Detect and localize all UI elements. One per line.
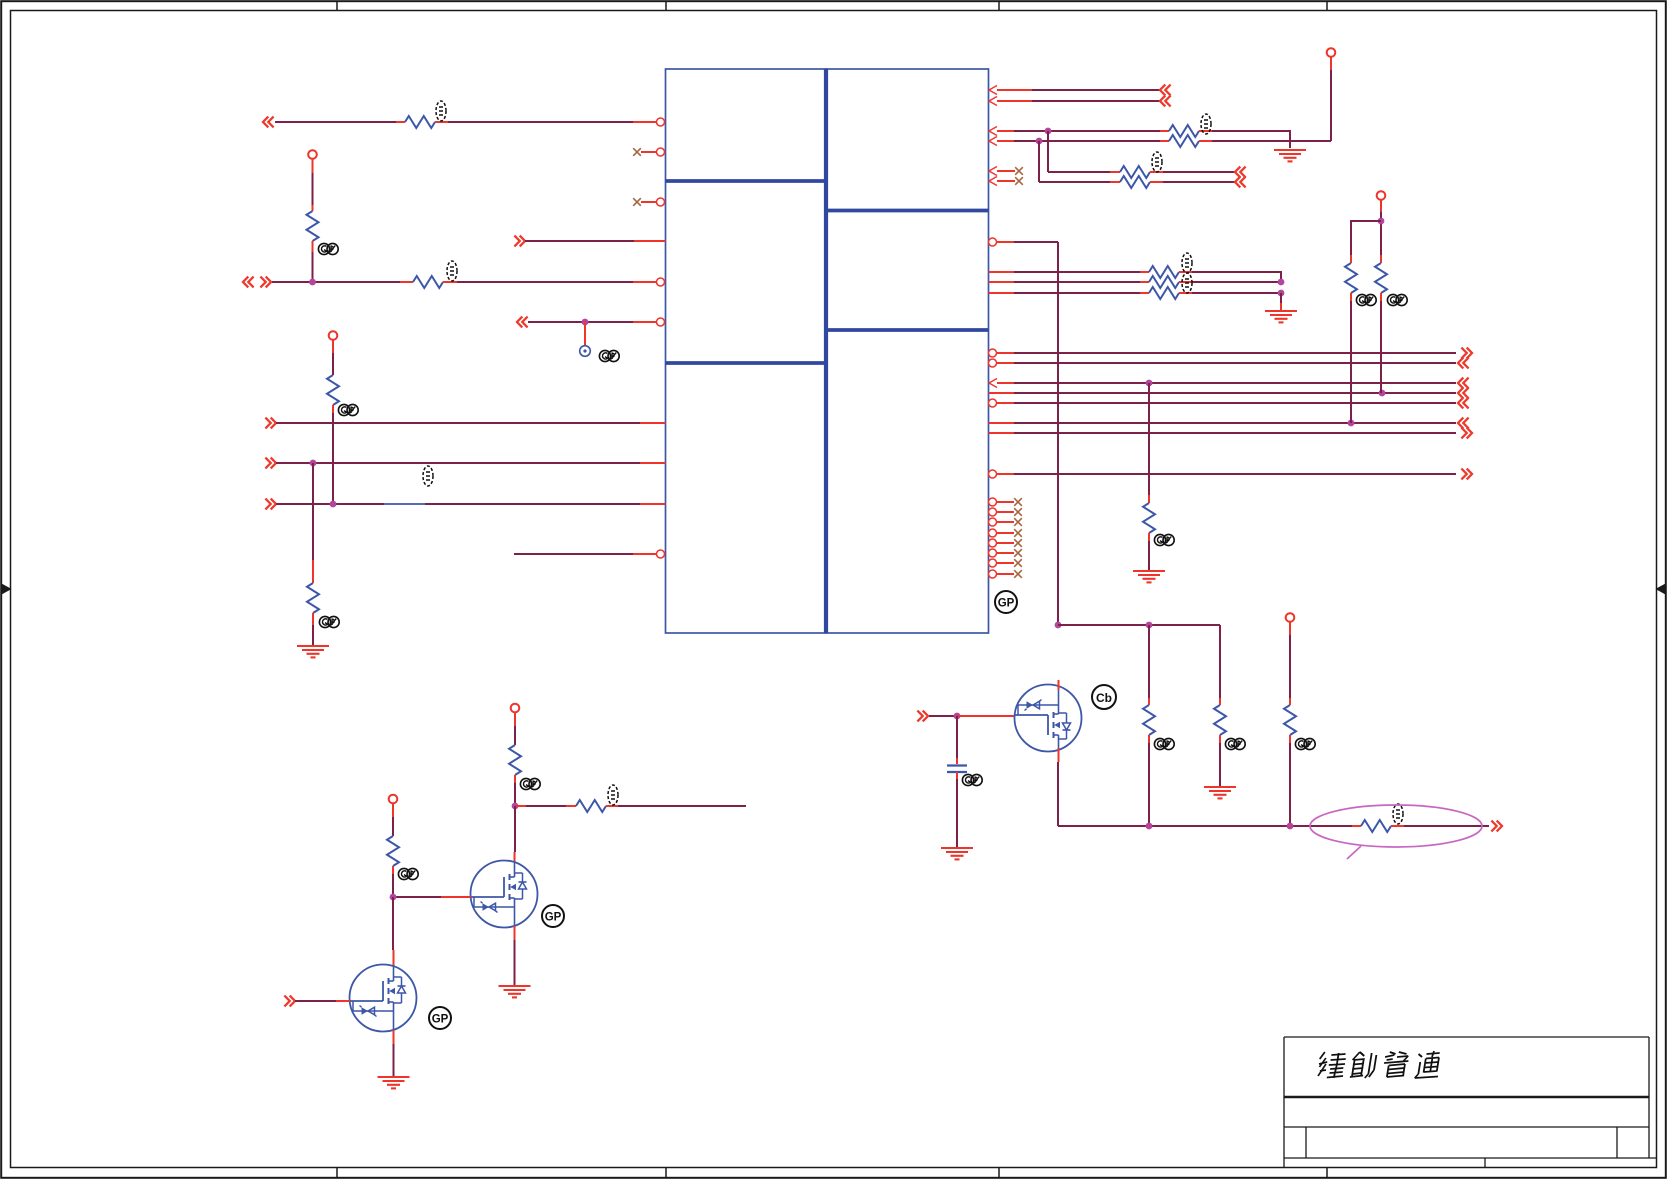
red stub R18 top: [1219, 698, 1221, 705]
nc stub red y181: [997, 180, 1015, 182]
centering arrow right edge: [1657, 585, 1667, 594]
port chevron OUT B8: [1461, 469, 1472, 480]
pin circle y403: [989, 399, 997, 407]
label G/P TP1: [599, 350, 619, 361]
wire R23 to junction: [392, 874, 394, 897]
wire net N7 segment b: [425, 503, 640, 505]
wire net M1 horizontal: [1014, 241, 1058, 243]
wire P2 to R4: [332, 353, 334, 375]
IC U1 thick center divider: [824, 69, 828, 633]
port chevron OUT T1: [1160, 85, 1171, 96]
wire G2 to R22: [526, 805, 566, 807]
port chevron OUT B3: [1458, 378, 1469, 389]
wire net T4: [1014, 140, 1160, 142]
nc pin y502: [989, 498, 1022, 506]
red stub R15 bottom: [1350, 293, 1352, 301]
red stub R16 bottom: [1380, 293, 1382, 301]
wire D1 down x1220: [1219, 625, 1221, 698]
pin arrow y131: [989, 127, 997, 136]
power terminal P6: [511, 704, 520, 713]
highlight leader line: [1347, 846, 1361, 859]
wire net B1: [1014, 352, 1456, 354]
ground GND8: [378, 1077, 410, 1088]
wire V3 from N6 down: [312, 463, 314, 560]
port chevron OUT B5: [1458, 398, 1469, 409]
label GP Q4: [542, 905, 564, 927]
pin stub red y282: [989, 281, 1015, 283]
nc pin y202 stub: [641, 201, 657, 203]
highlight ellipse: [1310, 805, 1482, 847]
pin stub red y393: [989, 392, 1015, 394]
wire net G1: [929, 715, 957, 717]
pin circle y282: [657, 278, 665, 286]
pin arrow y90: [989, 86, 997, 95]
pin stub red y322: [633, 321, 657, 323]
wire P4 down: [1380, 212, 1382, 255]
IC U1 left column divider B: [666, 361, 827, 365]
resistor R7: [1169, 125, 1199, 137]
svg-text:GP: GP: [545, 912, 562, 924]
power stub red P4: [1380, 200, 1382, 212]
resistor R11: [1149, 266, 1179, 278]
wire red stub R1 right: [435, 121, 448, 123]
pin circle y554: [657, 550, 665, 558]
wire M4 down to ground: [1280, 293, 1282, 303]
label G/P R16: [1387, 294, 1407, 305]
no-connect X y171: [1015, 167, 1023, 175]
wire net T2: [1032, 100, 1160, 102]
port chevron OUT B6: [1458, 418, 1469, 429]
label Cb circled: [1092, 685, 1116, 709]
wire P6 down: [514, 726, 516, 745]
red stub R19 top: [1289, 698, 1291, 705]
pin stub red y141: [997, 140, 1014, 142]
wire net B4: [1014, 392, 1456, 394]
wire T6 to port: [1163, 181, 1235, 183]
wire R19 to bus: [1289, 743, 1291, 826]
power stub red P7: [392, 803, 394, 817]
zone tick top 4: [1326, 1, 1328, 11]
port chevron pair IN3 right: [260, 277, 271, 288]
pin circle y474: [989, 470, 997, 478]
wire net N7 blue tie segment: [384, 503, 425, 505]
wire T5 to port: [1163, 171, 1235, 173]
wire R3 to junction: [312, 252, 314, 282]
port chevron IN1: [263, 117, 274, 128]
port chevron gate G3: [284, 996, 295, 1007]
junction dot P4: [1378, 218, 1385, 225]
label GP circled: [995, 591, 1017, 613]
label G/P R6: [319, 616, 339, 627]
wire R15 to B6: [1350, 301, 1352, 423]
junction dot D1: [1146, 622, 1153, 629]
wire C1 to ground: [956, 779, 958, 848]
wire B3 pulldown vertical: [1148, 383, 1150, 495]
pin arrow y141: [989, 137, 997, 146]
label R22: [608, 785, 618, 805]
port chevron gate G1: [917, 711, 928, 722]
wire P7 down: [392, 817, 394, 836]
wire T4 to pullup: [1212, 140, 1331, 142]
wire net N2: [525, 240, 634, 242]
resistor R15 vertical: [1345, 263, 1357, 293]
wire net N1 to pin: [448, 121, 633, 123]
wire Q4 source to ground: [514, 940, 516, 986]
red stub R12 right: [1179, 281, 1192, 283]
red stub R10 right: [1150, 181, 1163, 183]
label G/P R14: [1154, 534, 1174, 545]
no-connect X y181: [1015, 177, 1023, 185]
title block frame: [1284, 1037, 1657, 1168]
IC U1 right column divider B: [826, 328, 989, 332]
wire net N6: [276, 462, 640, 464]
nc pin y533: [989, 529, 1022, 537]
red stub R7 left: [1160, 130, 1169, 132]
port chevron OUT T5: [1235, 167, 1246, 178]
red stub R3 top: [312, 205, 314, 211]
ground GND5: [1204, 787, 1236, 798]
label R12: [1182, 273, 1192, 293]
wire R14 to ground: [1148, 541, 1150, 571]
pin stub red y90: [997, 89, 1032, 91]
junction dot N4: [582, 319, 589, 326]
resistor R20: [1361, 820, 1391, 832]
port chevron IN4: [517, 317, 528, 328]
label G/P R15: [1356, 294, 1376, 305]
label R1: [436, 101, 446, 121]
zone tick bottom 1: [336, 1168, 338, 1178]
resistor R21 vertical: [509, 745, 521, 775]
pin arrow y383: [989, 379, 997, 388]
wire net N8 bare: [514, 553, 633, 555]
wire net M2: [1014, 271, 1140, 273]
zone tick bottom 3: [998, 1168, 1000, 1178]
pin stub red y474: [997, 473, 1015, 475]
resistor R1: [405, 116, 435, 128]
pin stub red y353: [997, 352, 1015, 354]
red stub R8 right: [1199, 140, 1212, 142]
pin stub red y504: [640, 503, 666, 505]
ground GND3: [1265, 311, 1297, 322]
port chevron OUT B1: [1461, 348, 1472, 359]
resistor R16 vertical: [1375, 263, 1387, 293]
red stub R9 left: [1110, 171, 1120, 173]
wire Q4 gate: [393, 896, 441, 898]
label R7: [1201, 114, 1211, 134]
transistor Q4: [471, 861, 538, 928]
label G/P R3: [318, 243, 338, 254]
pin stub red y242: [997, 241, 1015, 243]
pin circle y353: [989, 349, 997, 357]
company logo glyph 4 (tong): [1415, 1051, 1442, 1078]
red stub R11 right: [1179, 271, 1192, 273]
wire net B8: [1014, 473, 1456, 475]
red stub R8 left: [1160, 140, 1169, 142]
power terminal P7: [389, 795, 398, 804]
label R2: [447, 261, 457, 281]
zone tick top 2: [665, 1, 667, 11]
gate stub red Q6: [957, 715, 1015, 717]
red stub R17 top: [1148, 698, 1150, 705]
nc pin y522: [989, 518, 1022, 526]
junction dot M1-top: [1055, 622, 1062, 629]
power stub red P2: [332, 340, 334, 353]
port chevron OUT T6: [1235, 177, 1246, 188]
power stub red P5: [1289, 622, 1291, 635]
transistor Q6: [1015, 685, 1082, 752]
pin stub red y101: [997, 100, 1032, 102]
IC block U1 right column outline: [826, 69, 989, 633]
capacitor wire C1 top: [956, 716, 958, 758]
pin stub red y272: [989, 271, 1015, 273]
label R20: [1393, 804, 1403, 824]
junction dot bus-a: [1146, 823, 1153, 830]
red stub R6 top: [312, 560, 314, 583]
company logo glyph 1 (wei): [1317, 1052, 1347, 1078]
source red stub Q6 bottom: [1058, 748, 1060, 762]
pin stub red y433: [989, 432, 1015, 434]
wire net N7 segment a: [276, 503, 384, 505]
junction dot M4: [1278, 290, 1285, 297]
wire P4 branch left: [1351, 221, 1381, 255]
red stub R18 bottom: [1219, 735, 1221, 743]
red stub C1 top: [956, 758, 958, 764]
red stub R21 bottom: [514, 775, 516, 783]
power terminal P5: [1286, 613, 1295, 622]
power stub red P6: [514, 712, 516, 726]
drain red stub Q5: [393, 950, 395, 966]
zone tick bottom 2: [665, 1168, 667, 1178]
wire T3 branch vertical: [1047, 131, 1049, 172]
red stub R22 right: [606, 805, 618, 807]
title block heavy divider: [1284, 1096, 1649, 1099]
junction dot G3: [390, 894, 397, 901]
wire net B7: [1014, 432, 1456, 434]
ground GND1: [297, 646, 329, 657]
red stub R11 left: [1140, 271, 1149, 273]
pin stub red y363: [997, 362, 1015, 364]
power terminal P3: [1327, 48, 1336, 57]
nc pin y574: [989, 570, 1022, 578]
pin stub red y463: [640, 462, 666, 464]
port chevron OUT T2: [1160, 96, 1171, 107]
red stub R10 left: [1110, 181, 1120, 183]
label G/P R4: [338, 404, 358, 415]
wire G3 down to Q5: [392, 897, 394, 950]
wire net D1 top rail: [1058, 624, 1220, 626]
pin arrow y171: [989, 167, 997, 176]
nc pin y152 circle: [657, 148, 665, 156]
red stub R15 top: [1350, 255, 1352, 263]
nc pin y553: [989, 549, 1022, 557]
no-connect X y202: [633, 198, 641, 206]
nc pin y543: [989, 539, 1022, 547]
wire D1 down x1149: [1148, 625, 1150, 698]
wire T3 to corner: [1212, 131, 1290, 148]
ground GND6: [941, 848, 973, 859]
pin stub red y423: [640, 422, 666, 424]
label G/P C1: [962, 774, 982, 785]
wire net N3 segment: [272, 281, 400, 283]
wire net T3: [1014, 130, 1160, 132]
red stub R6 bottom: [312, 613, 314, 625]
red stub R12 left: [1140, 281, 1149, 283]
port chevron IN6: [265, 458, 276, 469]
wire R22 out: [618, 805, 746, 807]
pin stub red y554: [633, 553, 657, 555]
resistor R6 vertical: [307, 583, 319, 613]
junction dot N3: [309, 279, 316, 286]
red stub R16 top: [1380, 255, 1382, 263]
pin stub red y131: [997, 130, 1014, 132]
label R5: [423, 466, 433, 486]
label G/P R18: [1225, 738, 1245, 749]
pin stub red y282: [633, 281, 657, 283]
wire Q5 source to ground: [393, 1044, 395, 1077]
wire G2 down to Q4: [514, 806, 516, 852]
zone tick top 1: [336, 1, 338, 11]
wire R21 to junction: [514, 783, 516, 806]
label R9: [1152, 152, 1162, 172]
pin circle y322: [657, 318, 665, 326]
gate red stub Q4: [441, 896, 471, 898]
wire net M4: [1014, 292, 1140, 294]
ground GND4: [1133, 571, 1165, 582]
centering arrow left edge: [2, 585, 11, 594]
drain red stub Q6 top: [1058, 680, 1060, 690]
capacitor C1: [947, 766, 967, 773]
resistor R3 vertical: [307, 211, 319, 241]
transistor Q5: [350, 965, 417, 1032]
label G/P R19: [1295, 738, 1315, 749]
pin arrow y101: [989, 97, 997, 106]
wire T4 branch vertical: [1038, 141, 1040, 182]
resistor R9: [1120, 166, 1150, 178]
wire bottom bus: [1058, 825, 1352, 827]
red stub R22 left: [515, 805, 526, 807]
junction dot N7: [330, 501, 337, 508]
power stub red P3: [1330, 57, 1332, 70]
resistor R17 vertical: [1143, 705, 1155, 735]
wire R17 to bus: [1148, 743, 1150, 826]
source red stub Q5: [393, 1030, 395, 1044]
svg-text:GP: GP: [998, 598, 1015, 610]
nc stub red y171: [997, 170, 1015, 172]
port chevron IN7: [265, 499, 276, 510]
wire net M3: [1014, 281, 1140, 283]
nc pin y202 circle: [657, 198, 665, 206]
wire P5 down: [1289, 635, 1291, 698]
wire net B2: [1014, 362, 1456, 364]
pin stub red y383: [997, 382, 1014, 384]
wire net B3: [1014, 382, 1456, 384]
resistor R4 vertical: [327, 375, 339, 405]
label R11: [1182, 253, 1192, 273]
label G/P R17: [1154, 738, 1174, 749]
junction dot T4: [1036, 138, 1043, 145]
red stub R4 bottom: [332, 405, 334, 413]
power terminal P2: [329, 331, 338, 340]
port chevron OUT B7: [1461, 428, 1472, 439]
wire M3 to junction: [1192, 281, 1281, 283]
junction dot M3: [1278, 279, 1285, 286]
zone tick bottom 4: [1326, 1168, 1328, 1178]
junction dot G2: [512, 803, 519, 810]
resistor R8: [1169, 135, 1199, 147]
wire R18 to ground: [1219, 743, 1221, 787]
junction dot B4: [1379, 390, 1386, 397]
red stub R14 bottom: [1148, 533, 1150, 541]
pin circle y242: [989, 238, 997, 246]
pin circle y122: [657, 118, 665, 126]
wire red stub R1 left: [396, 121, 405, 123]
IC U1 left column divider A: [666, 179, 827, 183]
red stub ground M4: [1280, 303, 1282, 311]
port chevron pair IN3 left: [243, 277, 254, 288]
wire P3 down to T4: [1330, 70, 1332, 141]
red stub C1 bottom: [956, 772, 958, 779]
junction dot N6: [310, 460, 317, 467]
red stub R22 mid: [566, 805, 576, 807]
pin stub red y403: [997, 402, 1015, 404]
port chevron OUT B2: [1458, 358, 1469, 369]
red stub R3 bottom: [312, 241, 314, 252]
no-connect X y152: [633, 148, 641, 156]
IC U1 right column divider A: [826, 209, 989, 213]
pin stub red y241: [634, 240, 666, 242]
label G/P R23: [398, 868, 418, 879]
company logo glyph 3 (zi): [1382, 1052, 1410, 1077]
junction dot bus-b: [1287, 823, 1294, 830]
ground GND2: [1274, 150, 1306, 161]
company logo glyph 2 (chuang): [1350, 1052, 1377, 1078]
wire Q6 source to bus: [1057, 762, 1059, 826]
wire net G3 in: [295, 1000, 336, 1002]
wire net B6: [1014, 422, 1456, 424]
wire net T6: [1039, 181, 1110, 183]
red stub R14 top: [1148, 495, 1150, 503]
power terminal P4: [1377, 191, 1386, 200]
pin stub red y122: [633, 121, 657, 123]
resistor R19 vertical: [1284, 705, 1296, 735]
wire net M1 long vertical: [1057, 242, 1059, 625]
wire net N4 segment: [528, 321, 633, 323]
junction dot B3: [1146, 380, 1153, 387]
testpoint TP1: [580, 346, 591, 357]
wire R4 to junction N7: [332, 413, 334, 504]
wire net T5: [1048, 171, 1110, 173]
resistor R18 vertical: [1214, 705, 1226, 735]
junction dot B6: [1348, 420, 1355, 427]
wire M4 to junction: [1192, 292, 1281, 294]
port chevron OUT bus: [1491, 821, 1502, 832]
resistor R10: [1120, 176, 1150, 188]
resistor R14 vertical: [1143, 503, 1155, 533]
junction dot T3: [1045, 128, 1052, 135]
red stub R20 left: [1352, 825, 1361, 827]
nc pin y512: [989, 508, 1022, 516]
wire M2 to corner: [1192, 272, 1281, 282]
port chevron IN2: [514, 236, 525, 247]
power terminal P1: [308, 150, 317, 159]
port chevron OUT B4: [1458, 388, 1469, 399]
pin stub red y293: [989, 292, 1015, 294]
label GP Q5: [429, 1007, 451, 1029]
drain red stub Q4: [514, 852, 516, 862]
resistor R23 vertical: [387, 836, 399, 866]
wire R6 to ground: [312, 625, 314, 646]
resistor R2: [413, 276, 443, 288]
